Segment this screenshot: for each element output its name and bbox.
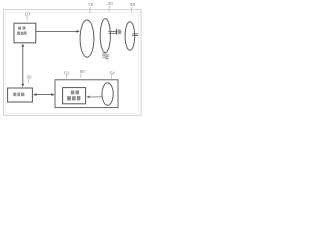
- arrowhead down into box 30: [21, 84, 24, 87]
- arrowhead right into box 50: [51, 93, 54, 96]
- page frame inner faint: [5, 12, 138, 113]
- svg-text:50: 50: [80, 69, 86, 75]
- wire box10 to roller 70: [36, 30, 77, 32]
- wire roller 54 to box 52: [89, 96, 102, 98]
- heat squiggle under roller 20: [102, 54, 109, 59]
- label 60 tick: [130, 7, 133, 13]
- roller 60 shaft double line: [132, 33, 138, 35]
- svg-text:54: 54: [110, 70, 116, 76]
- roller 54 inside box 50: [102, 83, 113, 105]
- box 30 (control unit): [8, 88, 33, 102]
- arrowhead into box 52: [86, 96, 89, 99]
- box 10 (power supply unit): [14, 23, 36, 43]
- arrowhead into roller 70: [77, 30, 80, 33]
- arrowhead left into box 30: [33, 93, 36, 96]
- label 52 tick: [65, 75, 67, 79]
- svg-text:52: 52: [64, 70, 70, 76]
- roller 20 (heating roller): [100, 19, 110, 53]
- label 50 tick: [80, 73, 82, 77]
- wire box10-box30 vertical (double arrow): [22, 46, 24, 85]
- label 70 tick: [89, 7, 92, 13]
- roller 60 (press roller): [125, 22, 135, 50]
- svg-text:60: 60: [130, 2, 136, 8]
- box 10 text line2: [17, 31, 26, 35]
- arrowhead up into box 10: [21, 44, 24, 47]
- label 54 tick: [111, 75, 113, 79]
- box 30 text: [13, 93, 24, 97]
- roller 20 shaft double line: [108, 30, 116, 32]
- roller 20 shaft bearing bar: [116, 29, 117, 35]
- roller 70 (supply roll): [80, 20, 94, 57]
- svg-text:20: 20: [107, 1, 113, 7]
- box 52 text line2: [67, 96, 80, 101]
- wire box30-box50 horizontal (double arrow): [35, 94, 53, 96]
- roller 20 shaft knob: [118, 29, 122, 34]
- label 20 tick: [108, 6, 111, 11]
- box 50 outer (heater assembly): [55, 80, 118, 108]
- box 52 inner: [63, 88, 86, 104]
- svg-text:70: 70: [88, 2, 94, 8]
- page frame outer: [3, 10, 141, 116]
- label 10 tick: [26, 16, 28, 21]
- box 10 text line1: [18, 26, 26, 29]
- box 52 text line1: [71, 90, 79, 94]
- svg-text:30: 30: [26, 74, 32, 80]
- label 30 tick: [27, 79, 29, 83]
